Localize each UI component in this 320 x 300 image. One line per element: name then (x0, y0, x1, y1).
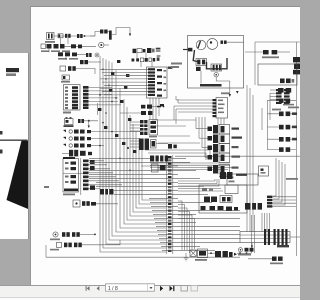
inset exit arrow (229, 81, 231, 97)
CN-A wires right (89, 87, 122, 115)
CN-C top label (221, 91, 239, 94)
wire dash mid (160, 104, 164, 106)
instrument cluster bar (150, 156, 168, 162)
junction dots bottom (239, 252, 247, 254)
connector CN04 (54, 44, 65, 49)
FB1 label (63, 194, 75, 196)
relay RY5 (208, 165, 239, 178)
key switch connector row (133, 48, 161, 53)
spare connector row (248, 257, 283, 265)
inset left label (171, 63, 182, 69)
svg-text:1 / 8: 1 / 8 (108, 286, 118, 292)
wire row2 (65, 45, 97, 47)
wire to upper pair (90, 32, 100, 37)
connector CN07 (80, 60, 101, 64)
relay RY2 (199, 134, 242, 144)
toolbar last-page button (170, 286, 175, 291)
dark connector bar (245, 203, 262, 210)
connector block CN-A outline (64, 85, 81, 111)
FB1 output wires (89, 161, 123, 189)
lamp connector pair 4 (268, 137, 298, 142)
small unit box right-mid (259, 166, 269, 176)
schematic frame right corner (255, 42, 300, 256)
fuel unit circle row (238, 248, 254, 256)
long bus line right (175, 155, 300, 157)
vertical connector bar (109, 31, 112, 40)
lamp switch SW4 (64, 117, 74, 127)
relay box outline right (258, 64, 297, 85)
alternator row connector CN03 (41, 44, 52, 49)
central connector block CN-B outline (147, 67, 168, 98)
relay RY3 (202, 144, 239, 154)
CN-L terminal pins (168, 156, 172, 252)
CN-A label (63, 112, 71, 114)
legend box L3 (225, 185, 238, 194)
bottom harness block HB1 (240, 229, 300, 248)
wire battery to fuses (54, 35, 95, 37)
cover page title text (6, 68, 19, 76)
flasher unit stack (140, 120, 148, 135)
fusible link F1 (58, 34, 63, 38)
lamp labels row (272, 104, 294, 111)
inset caption (200, 84, 222, 87)
mid connector bits (156, 144, 177, 149)
bundle to relay bank (145, 120, 210, 160)
wire bundle to CN-C (174, 96, 213, 124)
relay RY1 (196, 125, 239, 135)
CN-B label (168, 67, 173, 69)
connector row CN08 (62, 150, 92, 157)
cluster sub boxes (152, 164, 166, 172)
FB1 output pin strip (83, 160, 89, 191)
thick loop cable (207, 58, 228, 69)
control module M1 (149, 120, 158, 138)
glow plug indicator circle (95, 53, 99, 57)
inset fuse block (196, 67, 201, 71)
inset left exit stub (183, 48, 192, 52)
lamp switch row 2 (63, 130, 140, 134)
legend box L2 (227, 174, 258, 185)
inset ground stub (201, 71, 230, 84)
harness crossover hairlines (100, 69, 148, 95)
cover page margin char 2 (0, 150, 3, 154)
label right edge (286, 178, 298, 180)
timer box bottom (195, 249, 208, 261)
small comp in relay box (278, 88, 291, 93)
flasher stack gaps (140, 123, 148, 131)
lamp connector pair 5 (268, 147, 297, 152)
toolbar prev-page button (97, 286, 100, 291)
connector strip CN-L rails (167, 155, 173, 254)
lamp connector pair 3 (268, 125, 298, 130)
viewer toolbar (0, 285, 300, 297)
connector CN02 (100, 30, 109, 34)
toolbar zoom icon 1 (181, 286, 188, 292)
toolbar next-page button (160, 286, 163, 291)
connector row3 CN06 (58, 52, 86, 56)
horn relay row (73, 200, 118, 207)
connector CN06b (86, 53, 92, 57)
bottom cluster connectors (208, 251, 237, 257)
condenser X-box (190, 250, 196, 256)
ground G1 (184, 253, 188, 261)
relay RY4 (205, 153, 240, 163)
inset terminal circle (214, 73, 218, 77)
FB1 side rail (80, 158, 82, 195)
wire bottom row to right (237, 252, 252, 254)
CN-B pin marks column 3 (164, 70, 167, 91)
right connector block CN-R rows (270, 89, 290, 104)
safety relay connectors (141, 105, 164, 109)
battery relay block (196, 59, 207, 66)
right edge component RE1 (293, 57, 300, 74)
glow plug coil (211, 64, 222, 71)
CN-B pin column 2 (157, 69, 162, 97)
main page (wiring diagram sheet) (31, 6, 300, 285)
arrowhead to key switch (129, 34, 131, 37)
starter inset box outline (188, 36, 244, 89)
lamp switch row 3 (63, 137, 140, 141)
fuse F2 (65, 34, 71, 38)
connector block CN-C (213, 98, 228, 126)
inter-row stubs (49, 38, 68, 60)
right box bottom cluster (280, 79, 294, 84)
CN-B drop wires (150, 98, 159, 119)
label row2 (41, 50, 70, 52)
label row3 (58, 58, 78, 60)
FB1 fuses (63, 162, 88, 192)
CN-R label (288, 107, 299, 109)
dense bundle lines mid-right (150, 163, 232, 170)
lamp connector pair 1 (268, 99, 297, 103)
CN-A pin rows (65, 86, 78, 109)
magnet switch circle (207, 39, 218, 50)
timer connectors (120, 111, 152, 115)
wire inset to fuse row (245, 51, 263, 53)
connector CN01 (77, 34, 85, 38)
starter motor circle (196, 40, 206, 50)
horn switch SW2 (50, 232, 96, 240)
inset top connector pair (221, 41, 244, 44)
cover page black wedge (7, 141, 29, 209)
key row drop stubs (137, 53, 152, 67)
main fuse row (262, 50, 290, 58)
cover page margin char 1 (0, 131, 3, 135)
lamp row1 connector (78, 119, 98, 128)
staircase wire bends (178, 201, 195, 253)
lamp switch row 4 (63, 144, 104, 148)
heater relay cluster (139, 139, 156, 151)
lamp connector pair 2 (268, 112, 298, 117)
fuse box FB1 outline (63, 157, 79, 192)
junction dot (127, 147, 129, 149)
right vertical feeders (247, 85, 270, 232)
toolbar zoom icon 2 (191, 286, 198, 292)
bus tap connectors (98, 60, 136, 153)
pin connector CN-P (267, 196, 296, 208)
starter switch SW1 (60, 66, 95, 74)
right bundle verticals (273, 158, 285, 205)
junction cluster connectors (220, 172, 247, 179)
connector CN05 (71, 44, 82, 48)
CN-L through wires (89, 158, 240, 250)
relay feed bus verticals (196, 117, 205, 157)
module wires in (130, 122, 140, 147)
starter thick cable (193, 50, 199, 62)
bundle into cluster (178, 179, 223, 191)
wiper switch SW3 (50, 240, 120, 250)
cover page rule line (0, 140, 28, 141)
wire riser to key switch (112, 28, 130, 35)
bus junction bar (100, 189, 114, 195)
toolbar page-number box (106, 284, 155, 292)
center harness bus wires (100, 56, 166, 252)
FB1 side connectors (90, 160, 95, 190)
CN-B pin column 1 (148, 68, 155, 96)
hour meter gauge G1 (99, 42, 109, 47)
bottom bus left drop (45, 245, 47, 257)
relay RY0 (61, 75, 70, 83)
battery BT1 (45, 33, 55, 43)
toolbar first-page button (86, 286, 90, 291)
CN-A output pin strip (83, 86, 89, 109)
feeder drops to bottom block (252, 213, 270, 253)
control unit box BX3 (199, 185, 247, 213)
FB1 side label (44, 186, 49, 188)
bus junction dots (99, 69, 131, 172)
bottom long bus (46, 256, 240, 258)
left page (cover) (0, 53, 28, 239)
ignition row connectors (132, 55, 161, 62)
